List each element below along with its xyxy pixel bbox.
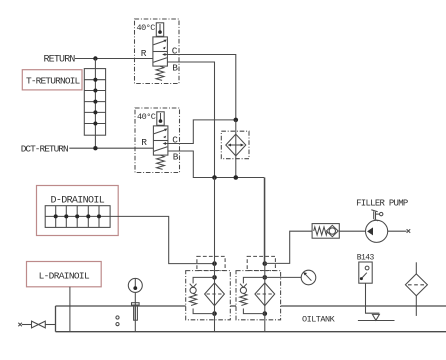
wire assembly2 to pressure gauge: [265, 276, 301, 278]
wire RETURN line: [75, 58, 153, 60]
wire pump outlet: [388, 230, 407, 232]
svg-text:RETURN: RETURN: [44, 55, 76, 66]
filter F1 bypass: [221, 120, 249, 178]
filter assembly LF1: [186, 256, 231, 319]
oil tank: [56, 306, 446, 332]
wire check valve to pump: [339, 230, 365, 232]
junction RETURN / cooler: [93, 56, 97, 60]
pressure gauge G1: [301, 270, 316, 285]
wire valve2 B port to manifold line: [168, 151, 264, 178]
svg-text:DCT-RETURN: DCT-RETURN: [21, 144, 68, 155]
label T-RETURNOIL: [22, 70, 82, 90]
wire D-DRAINOIL to filter assembly 1: [110, 216, 214, 263]
level switch B143: [359, 262, 372, 283]
cooler T-RETURNOIL: [84, 59, 105, 149]
drain shutoff valve V1: [32, 321, 46, 328]
junction DCT-RETURN / cooler: [93, 146, 97, 150]
svg-text:FILLER PUMP: FILLER PUMP: [356, 198, 408, 208]
wire DCT-RETURN line: [69, 147, 153, 149]
svg-text:OILTANK: OILTANK: [302, 315, 336, 325]
svg-text:B143: B143: [357, 254, 375, 263]
manifold D-DRAINOIL: [45, 206, 110, 228]
svg-text:L-DRAINOIL: L-DRAINOIL: [39, 270, 90, 281]
wire B143 into tank with level symbol: [358, 283, 395, 320]
thermostatic valve U2 40C: [135, 108, 180, 173]
filler pump P1 hand pump: [366, 210, 388, 243]
wire suction tee to check valve: [265, 231, 312, 263]
air breather AB1: [405, 262, 427, 316]
filter assembly LF2: [236, 256, 281, 319]
wire valve to tank: [45, 324, 55, 326]
wire feed through assembly 2: [264, 178, 266, 332]
junction node filter top: [234, 118, 239, 123]
svg-text:T-RETURNOIL: T-RETURNOIL: [26, 76, 81, 87]
thermometer TG1: [128, 278, 142, 331]
check valve CV1 spring loaded: [312, 224, 339, 239]
wire valve1 B port down: [167, 62, 214, 178]
wire plug to valve: [22, 324, 32, 326]
wire down to suction tee: [263, 178, 265, 264]
label L-DRAINOIL: [27, 262, 102, 287]
wire valve1 C port to filter: [167, 55, 235, 120]
thermostatic valve U1 40C: [135, 19, 180, 84]
svg-text:D-DRAINOIL: D-DRAINOIL: [51, 196, 105, 207]
junction node A: [212, 175, 217, 180]
drain plug X: [18, 323, 22, 327]
breather vent circles: [116, 316, 119, 319]
label D-DRAINOIL: [37, 186, 119, 236]
plug X at pump outlet: [407, 229, 411, 233]
junction node B: [234, 175, 239, 180]
wire L-DRAINOIL to tank: [69, 287, 71, 332]
wire valve2 C port up to filter node: [168, 120, 236, 144]
wire feed through assembly 1: [214, 178, 216, 332]
